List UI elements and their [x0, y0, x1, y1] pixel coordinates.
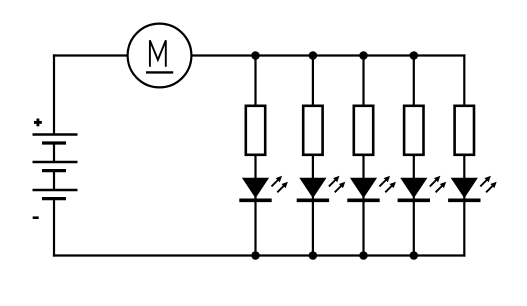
junction bottom rail branch 3: [359, 251, 368, 260]
battery negative label -: [33, 216, 39, 219]
junction top rail branch 4: [410, 51, 419, 60]
wire top rail right (motor to LED branches): [190, 54, 465, 56]
battery B1: [33, 135, 78, 199]
wire branch 3 vertical: [362, 56, 364, 256]
LED D1: [239, 176, 288, 201]
wire branch 1 vertical: [254, 56, 256, 256]
wire branch 2 vertical: [312, 56, 314, 256]
resistor R1: [246, 106, 265, 155]
resistor R4: [404, 106, 423, 155]
LED D2: [297, 176, 346, 201]
wire left rail lower (battery - to bottom corner): [53, 199, 55, 257]
junction bottom rail branch 4: [410, 251, 419, 260]
battery positive label +: [34, 119, 42, 127]
wire left rail upper (corner to battery +): [53, 54, 55, 134]
junction bottom rail branch 2: [309, 251, 318, 260]
junction bottom rail branch 1: [251, 251, 260, 260]
junction top rail branch 3: [359, 51, 368, 60]
junction top rail branch 1: [251, 51, 260, 60]
junction top rail branch 2: [309, 51, 318, 60]
resistor R2: [303, 106, 322, 155]
resistor R5: [455, 106, 474, 155]
resistor R3: [354, 106, 373, 155]
wire branch 5 vertical: [463, 54, 465, 256]
LED D3: [347, 176, 396, 201]
LED D5: [448, 176, 497, 201]
motor M1: [128, 24, 192, 88]
LED D4: [398, 176, 447, 201]
wire branch 4 vertical: [413, 56, 415, 256]
wire top rail left (motor to battery corner): [53, 54, 129, 56]
wire bottom rail: [53, 254, 466, 256]
